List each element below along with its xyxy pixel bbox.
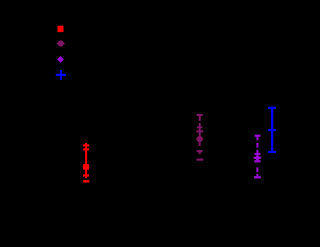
violet diamond marker: [254, 155, 262, 161]
violet dashed errorbar line: [256, 135, 258, 177]
magenta dashed errorbar line: [199, 114, 201, 154]
violet cap bottom: [254, 176, 261, 178]
magenta cap mid 2: [196, 130, 203, 132]
violet cap top: [255, 135, 261, 137]
magenta cap top outer: [197, 114, 203, 116]
violet cap inner bottom: [254, 160, 261, 162]
blue cap top: [268, 107, 276, 109]
legend marker violet diamond: [57, 56, 64, 63]
red cap bottom inner: [83, 174, 89, 176]
blue plus marker arm: [268, 129, 276, 131]
blue errorbar line: [271, 107, 273, 153]
legend marker red square: [58, 26, 64, 32]
magenta cap mid 1: [197, 126, 202, 128]
red errorbar line: [85, 143, 87, 178]
red cap top outer: [83, 144, 89, 146]
blue cap bottom: [268, 151, 276, 153]
violet cap inner top: [255, 153, 261, 155]
legend marker blue plus: [56, 70, 66, 80]
red cap top inner: [83, 148, 89, 150]
red square marker: [83, 164, 90, 170]
magenta cap bottom: [197, 150, 203, 152]
magenta circle marker: [196, 136, 203, 142]
red bottom bar: [83, 180, 89, 182]
magenta bottom bar: [197, 159, 204, 161]
legend marker magenta circle: [57, 40, 65, 46]
